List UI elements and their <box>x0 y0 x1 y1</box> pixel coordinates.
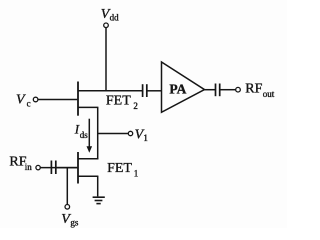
capacitor C2 left plate <box>215 84 217 97</box>
wire C2 to RFout terminal <box>220 89 235 91</box>
node Vc label <box>16 93 31 109</box>
svg-text:in: in <box>25 162 33 172</box>
svg-text:1: 1 <box>143 133 148 143</box>
wire C1 to PA input <box>148 90 162 92</box>
op-amp PA <box>162 62 205 112</box>
wire FET1 drain lead <box>78 158 98 160</box>
capacitor C1 left plate <box>142 84 144 97</box>
svg-text:V: V <box>16 93 26 108</box>
wire V1 tap <box>98 133 129 135</box>
current Ids arrow <box>88 119 90 148</box>
ground <box>93 197 105 203</box>
capacitor C1 right plate <box>146 84 148 97</box>
wire Vdd down to FET2 drain <box>105 28 107 92</box>
svg-text:PA: PA <box>169 82 186 97</box>
svg-text:out: out <box>263 89 275 99</box>
node RFin label <box>9 154 32 172</box>
wire FET2 drain lead <box>78 90 142 92</box>
wire Vc to FET2 gate <box>38 99 77 101</box>
terminal Vgs <box>65 205 70 210</box>
terminal Vdd <box>104 23 109 28</box>
terminal V1 <box>128 131 132 135</box>
svg-text:FET: FET <box>106 94 131 109</box>
wire FET2 source down to FET1 drain <box>97 107 99 159</box>
wire FET1 gate lead <box>40 167 77 169</box>
capacitor C3 left plate <box>50 161 52 175</box>
wire Vgs drop <box>66 168 68 205</box>
current Ids label <box>74 121 88 140</box>
svg-text:RF: RF <box>245 82 262 97</box>
capacitor C2 right plate <box>219 84 221 97</box>
svg-text:ds: ds <box>80 130 89 140</box>
node V1 label <box>135 127 148 143</box>
node Vgs label <box>61 212 79 227</box>
transistor FET1 gate bar <box>77 152 79 184</box>
node RFout label <box>245 82 274 99</box>
svg-text:gs: gs <box>70 217 79 227</box>
wire FET2 source lead <box>78 106 98 108</box>
svg-text:c: c <box>27 98 31 108</box>
transistor FET2 gate bar <box>77 82 79 116</box>
svg-text:dd: dd <box>110 13 120 23</box>
terminal Vc <box>33 97 38 102</box>
transistor FET2 label <box>106 94 138 111</box>
svg-text:FET: FET <box>107 161 132 176</box>
terminal RFin <box>36 165 40 169</box>
svg-text:2: 2 <box>133 101 138 111</box>
wire FET1 source down to ground <box>97 176 99 196</box>
svg-text:1: 1 <box>134 169 139 179</box>
wire FET1 source lead <box>78 175 98 177</box>
wire PA output <box>205 89 216 91</box>
wire C3 to FET1 gate <box>57 167 78 169</box>
node Vdd label <box>101 7 119 23</box>
transistor FET1 label <box>107 161 138 178</box>
terminal RFout <box>236 87 241 92</box>
capacitor C3 right plate <box>55 161 57 175</box>
